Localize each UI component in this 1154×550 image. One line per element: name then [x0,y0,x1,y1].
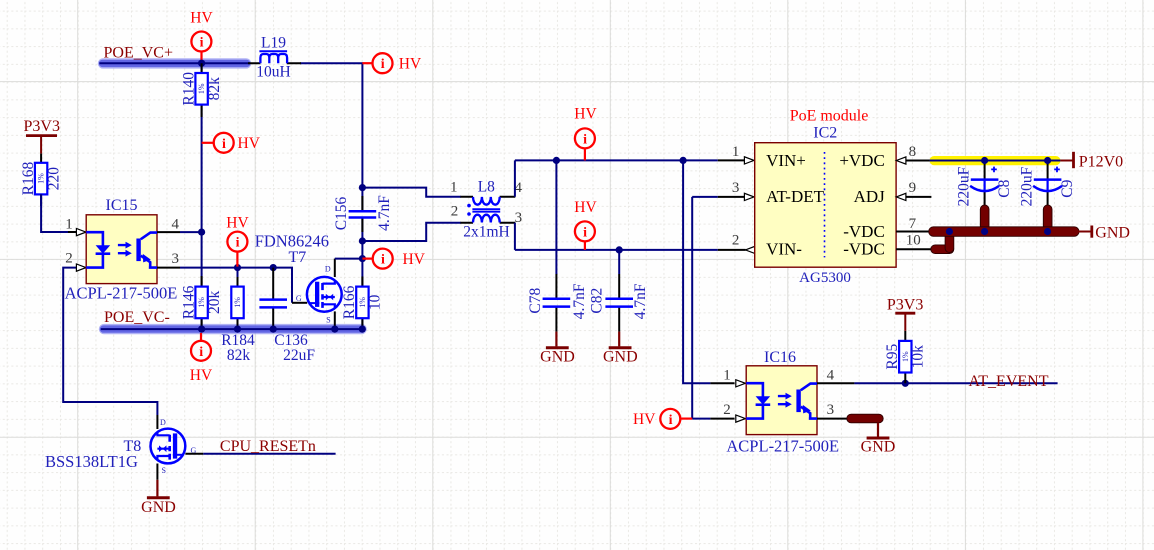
svg-text:1: 1 [450,180,458,196]
svg-text:R140: R140 [180,72,197,106]
svg-text:C9: C9 [1059,179,1076,197]
svg-text:1: 1 [723,368,731,384]
junction C136 top [270,264,277,271]
port HV colA [202,133,261,153]
transistor T7 [307,277,342,312]
svg-text:-VDC: -VDC [843,222,885,241]
svg-text:HV: HV [574,106,597,123]
wire T8 source to GND [156,464,158,480]
wire T8 gate [185,453,203,455]
svg-text:HV: HV [574,199,597,216]
resistor R184 [231,287,243,319]
svg-text:VIN+: VIN+ [766,151,806,170]
inductor L19 [259,51,287,63]
svg-text:9: 9 [909,180,917,196]
wire IC16 pin4 AT_EVENT [817,382,854,384]
svg-text:C8: C8 [996,179,1013,197]
wire R146 column [201,232,203,329]
svg-text:ACPL-217-500E: ACPL-217-500E [726,437,839,456]
svg-text:2: 2 [732,233,740,249]
highlight GND pin10 L [931,245,954,254]
wire IC15 pin2 net to T8 drain [63,268,157,415]
bus highlight P12V0 yellow [930,156,1061,165]
highlight GND C9 stub [1043,205,1052,232]
svg-text:82k: 82k [206,77,223,101]
wire R140 pin stubs [201,63,203,117]
inductor L8 (common-mode choke) [467,197,500,223]
svg-text:20k: 20k [206,291,223,315]
junction C78 top [553,157,560,164]
wire IC15 pin4 [157,231,180,233]
svg-text:R95: R95 [884,344,901,370]
svg-text:R166: R166 [341,285,358,319]
svg-text:HV: HV [403,251,426,268]
junction R184 top [234,264,241,271]
wire IC2 pin10 [896,232,949,250]
PoE module IC2 [755,143,896,268]
wire L8 pin4 to VIN+ rail [515,160,718,196]
svg-text:R168: R168 [20,162,37,196]
capacitor C78 [527,160,588,331]
svg-text:POE_VC-: POE_VC- [104,309,170,326]
svg-text:D: D [160,418,166,427]
svg-text:3: 3 [827,402,835,418]
wire IC16 pin3 to GND [817,418,877,420]
svg-text:BSS138LT1G: BSS138LT1G [45,452,138,471]
svg-text:IC15: IC15 [106,197,138,214]
svg-text:FDN86246: FDN86246 [255,231,329,250]
optocoupler IC15 [86,215,157,284]
wire POE_VC+ rail [99,62,250,64]
svg-text:C156: C156 [333,196,350,230]
junction C156 top [359,184,366,191]
wire GND rail [930,231,1079,233]
svg-text:2x1mH: 2x1mH [463,223,510,240]
highlight GND C8 stub [980,205,989,232]
svg-text:GND: GND [861,439,896,456]
svg-text:3: 3 [171,251,179,267]
power port GND right [1078,224,1130,241]
svg-text:HV: HV [190,9,213,26]
resistor R168 [35,163,47,195]
junctions on GND rail [946,228,953,235]
svg-text:AT-DET: AT-DET [766,187,825,206]
wire R146 pin stubs [201,276,203,328]
svg-text:POE_VC+: POE_VC+ [104,45,173,62]
svg-text:1: 1 [732,144,740,160]
svg-text:4: 4 [827,368,835,384]
svg-text:220uF: 220uF [955,166,972,206]
wire T7 drain to colE [335,258,363,260]
wire CPU_RESETn [203,453,335,455]
svg-text:L8: L8 [478,179,495,196]
svg-text:P3V3: P3V3 [24,118,60,135]
svg-text:G: G [296,294,302,303]
wire P12V0 rail [930,160,1061,162]
svg-text:4.7nF: 4.7nF [632,283,649,319]
optocoupler IC16 [746,366,817,435]
port HV mid top [574,106,597,161]
svg-text:AG5300: AG5300 [799,270,851,286]
wire R168 pins [40,154,42,163]
svg-text:8: 8 [909,144,917,160]
resistor R166 [356,287,368,319]
svg-text:-VDC: -VDC [843,240,885,259]
wire AT-DET vertical to IC16 pin2 [692,197,710,419]
svg-text:+VDC: +VDC [839,151,884,170]
resistor R146 [195,287,207,319]
svg-text:PoE module: PoE module [790,107,869,124]
wire R184 column [237,268,239,330]
svg-text:10: 10 [367,294,384,310]
svg-text:S: S [326,316,330,325]
svg-text:1: 1 [65,217,73,233]
wire R166 pin stubs [361,277,363,329]
port HV T7 row [362,249,425,269]
inductor L8 pins [460,197,515,223]
svg-text:4.7nF: 4.7nF [571,283,588,319]
junction C156 bottom [359,237,366,244]
inductor L19 pins [248,62,301,64]
svg-text:4: 4 [171,217,179,233]
junctions on P12V0 [981,157,988,164]
wire R168 to IC15 pin1 [41,194,68,232]
capacitor C156 [333,195,393,232]
wire R140 column [201,63,203,232]
svg-text:T7: T7 [289,249,307,266]
svg-text:CPU_RESETn: CPU_RESETn [220,438,316,455]
svg-text:GND: GND [540,349,575,366]
svg-text:S: S [162,466,166,475]
wire IC2 pin9 ADJ stub [906,196,932,198]
wire IC15 pin3 rail [157,267,180,269]
capacitor C9 [1018,161,1076,232]
svg-text:HV: HV [226,215,249,232]
transistor T8 [151,429,186,464]
wire POE_VC- rail [101,328,365,330]
junction C82 top [616,246,623,253]
svg-text:IC16: IC16 [764,349,796,366]
svg-text:2: 2 [65,251,73,267]
resistor R140 [195,73,207,105]
svg-text:82k: 82k [227,347,251,364]
wire R168 bottom stub [40,194,42,206]
capacitor C136 [259,300,287,308]
svg-text:HV: HV [633,411,656,428]
port HV top [190,9,213,62]
svg-text:R146: R146 [180,285,197,319]
port HV at IC16 pin2 [633,409,692,429]
port HV mid bottom [574,199,597,250]
svg-text:ACPL-217-500E: ACPL-217-500E [65,284,178,303]
port HV colB [226,215,249,267]
svg-text:IC2: IC2 [813,125,837,142]
svg-text:10k: 10k [910,345,927,369]
wire L8 pin3 to VIN- rail [515,223,718,250]
svg-text:L19: L19 [261,35,286,52]
ground C82 [603,332,638,366]
svg-text:VIN-: VIN- [766,240,802,259]
svg-text:HV: HV [399,56,422,73]
resistor R95 [884,331,927,384]
wire T7 source [334,311,336,329]
svg-text:220: 220 [45,167,62,191]
svg-text:2: 2 [451,204,459,220]
svg-text:3: 3 [732,180,740,196]
ground C78 [540,332,575,366]
highlight GND IC16 pin3 [847,414,883,423]
wire C156 to L8 pin1 [362,188,461,197]
svg-text:10uH: 10uH [256,64,290,81]
svg-text:C78: C78 [527,288,544,314]
svg-text:HV: HV [238,135,261,152]
bus highlight POE_VC+ [98,58,252,68]
svg-text:GND: GND [603,349,638,366]
bus highlight POE_VC- [99,324,367,334]
wire R184 pin stubs [237,277,239,328]
capacitor C82 [589,250,650,332]
wire IC2 pin8 +VDC [906,160,932,162]
wire L19 to corner [300,63,362,287]
svg-text:GND: GND [1095,224,1130,241]
wire C136 column [272,268,274,330]
port HV L19 right [362,53,422,73]
svg-text:10: 10 [906,233,921,249]
pin arrow IC15 pin2 [76,264,86,271]
pin arrow IC15 pin1 [76,229,86,236]
svg-text:GND: GND [141,499,176,516]
svg-text:4.7nF: 4.7nF [376,195,393,231]
svg-text:7: 7 [909,216,917,232]
port HV below bus [190,333,213,384]
ground T8 [141,480,176,516]
svg-text:ADJ: ADJ [854,187,886,206]
svg-text:HV: HV [190,367,213,384]
ground IC16 [861,423,896,456]
power port P3V3 right [887,297,923,331]
svg-text:P12V0: P12V0 [1079,153,1123,170]
wire C156 to L8 pin2 [362,223,461,241]
power port P3V3 left [24,118,60,154]
wire R166 column [361,318,363,329]
junction HV vertical [680,157,687,164]
svg-text:P3V3: P3V3 [887,297,923,314]
svg-text:D: D [325,265,331,274]
svg-text:220uF: 220uF [1018,166,1035,206]
power port P12V0 [1060,152,1123,171]
capacitor C8 [955,161,1013,232]
wire T7 drain [334,259,336,277]
wire IC2 pin7 [896,231,932,233]
svg-text:C82: C82 [589,288,606,314]
svg-text:AT_EVENT: AT_EVENT [969,373,1049,390]
svg-text:22uF: 22uF [283,347,315,364]
bus highlight GND [929,227,1079,237]
wire AT-DET to IC2 pin3 [692,196,718,198]
svg-text:2: 2 [723,402,731,418]
wire HV vertical to IC16 pin1 [683,160,710,383]
junction on POE_VC+ [198,60,205,67]
